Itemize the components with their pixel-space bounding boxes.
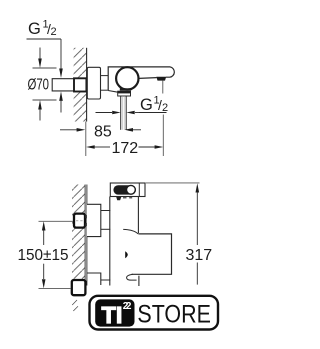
svg-text:2: 2 bbox=[51, 26, 57, 38]
dark wedge between union and wall bbox=[85, 214, 88, 226]
union nut square (top connection) bbox=[74, 214, 85, 228]
svg-text:317: 317 bbox=[186, 247, 213, 264]
hose outlet fillet under spout bbox=[127, 274, 137, 280]
small hatch fragments below logo-covered wall bbox=[72, 300, 77, 305]
logo outer rounded box bbox=[90, 296, 219, 330]
spout underside and rounded tip bbox=[139, 67, 174, 79]
spout rectangle (top view) bbox=[132, 234, 172, 274]
dia70 bottom arrow bbox=[39, 109, 41, 121]
dia70 top arrow bbox=[39, 48, 41, 60]
dim 172: right arrow inside pointing right bbox=[139, 146, 156, 148]
wall extension line down to dims bbox=[85, 122, 87, 157]
svg-text:22: 22 bbox=[123, 301, 132, 312]
svg-text:G: G bbox=[140, 96, 153, 114]
union square (bottom connection, thick border) bbox=[72, 280, 86, 295]
faucet escutcheon (side view) bbox=[87, 67, 100, 99]
wall (bottom drawing) hatched band bbox=[72, 185, 85, 286]
body right edge lower bbox=[138, 276, 140, 286]
svg-text:TI: TI bbox=[102, 302, 123, 328]
svg-text:172: 172 bbox=[112, 140, 139, 157]
concealed union square in wall bbox=[74, 78, 86, 91]
handle housing box (top view) bbox=[110, 183, 145, 197]
body left edge bbox=[109, 197, 111, 286]
wall (top drawing) hatched band bbox=[74, 48, 87, 122]
dia70 bottom extent line bbox=[33, 99, 57, 101]
dim 150: top arrow pointing up bbox=[42, 221, 46, 230]
dim 317: top extension line bbox=[146, 182, 200, 184]
dim 317: vertical line with top arrow bbox=[196, 183, 200, 192]
G1/2 arrow pointing left at pipe right edge bbox=[135, 112, 139, 114]
dark button on body bbox=[125, 251, 128, 258]
svg-text:85: 85 bbox=[94, 123, 112, 140]
temperature indicator mark below housing bbox=[116, 197, 121, 200]
aerator under spout tip bbox=[156, 77, 166, 81]
dim 150: bottom arrow pointing down bbox=[43, 264, 45, 279]
dim 85: left arrow (outside, pointing right at wall) bbox=[60, 129, 77, 131]
wall surface line (top drawing) bbox=[86, 48, 88, 122]
neck lines (top connection) bbox=[101, 210, 111, 212]
body right edge upper bbox=[137, 197, 139, 234]
shower hose nipple pipe bbox=[120, 96, 122, 130]
extension line below G1/2 label (right ref of 172) bbox=[162, 115, 164, 157]
svg-text:150±15: 150±15 bbox=[18, 247, 69, 264]
thermostat knob circle (side view) bbox=[116, 67, 138, 89]
dim 172: left arrow inside pointing left bbox=[86, 145, 95, 149]
svg-text:G: G bbox=[28, 20, 41, 38]
wall surface double line (bottom drawing) bbox=[84, 185, 86, 286]
svg-text:STORE: STORE bbox=[137, 300, 211, 328]
leader line from G1/2 label down to pipe top bbox=[60, 39, 62, 70]
faucet neck between escutcheon and body bbox=[101, 75, 109, 77]
centerline dashes inside union bbox=[76, 220, 78, 222]
dim 150: bottom extension line bbox=[39, 287, 71, 289]
escutcheon (top connection, top view) bbox=[87, 204, 101, 236]
faucet body left cap bbox=[108, 67, 170, 91]
svg-text:Ø70: Ø70 bbox=[28, 77, 50, 94]
underline of bottom G1/2 bbox=[139, 112, 167, 114]
leader arrow from below pointing up at pipe bottom (G1/2 thread) bbox=[60, 101, 62, 113]
lever stadium (dark) bbox=[113, 185, 136, 194]
dim 85: right arrow (outside, pointing left at pipe center) bbox=[133, 129, 142, 131]
lever end circle bbox=[126, 185, 135, 194]
logo TI black box bbox=[95, 299, 134, 326]
underline of G1/2 top-left bbox=[27, 38, 62, 40]
leader from aerator down to G1/2 label bbox=[162, 81, 164, 94]
housing divider line bbox=[138, 183, 140, 197]
spout root top fillet arc bbox=[123, 229, 138, 234]
dim 150: top extension line bbox=[39, 220, 74, 222]
G1/2 arrow pointing right at pipe left edge bbox=[96, 112, 113, 114]
supply pipe inside wall bbox=[52, 79, 73, 91]
escutcheon (bottom connection, partially covered) bbox=[87, 273, 110, 285]
dia70 top extent line bbox=[33, 67, 57, 69]
shower outlet collar (dark) bbox=[120, 88, 131, 90]
